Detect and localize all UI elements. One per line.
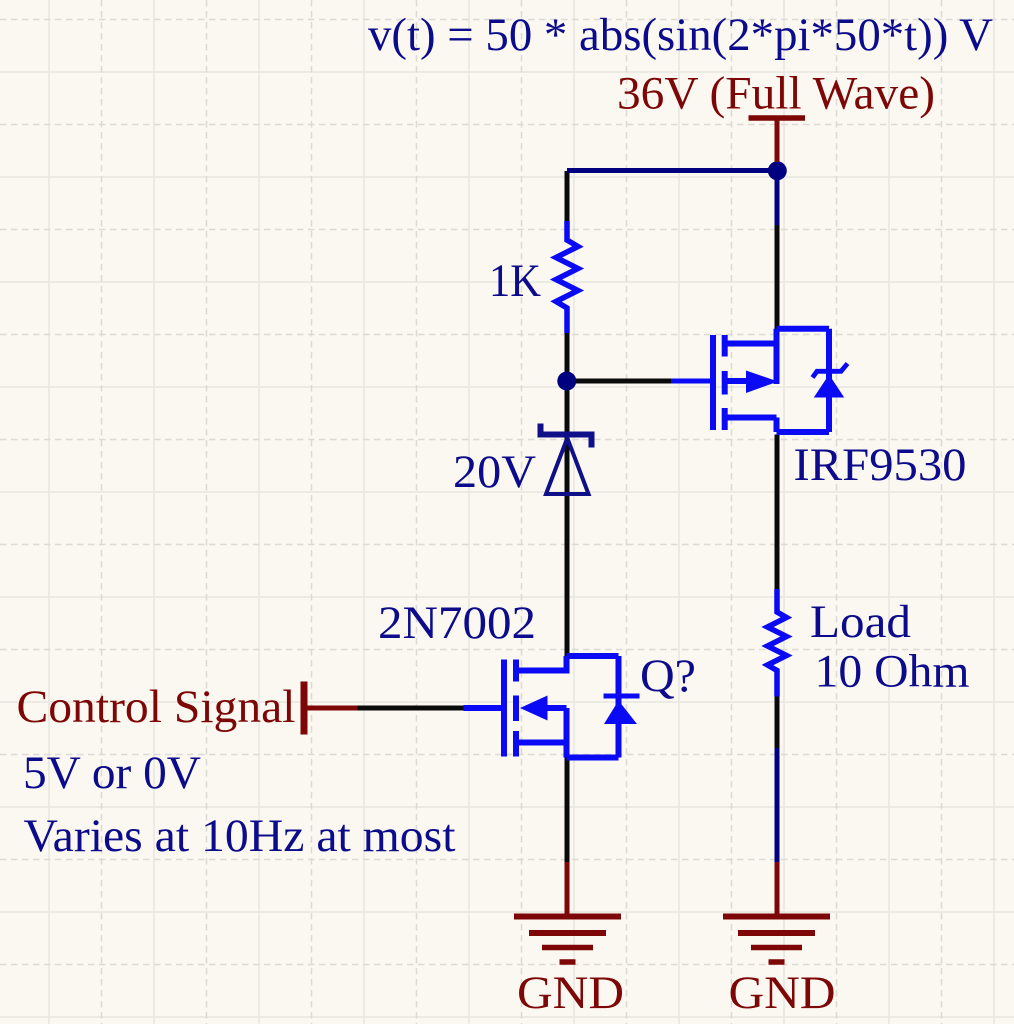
svg-text:20V: 20V xyxy=(453,446,536,498)
svg-text:Q?: Q? xyxy=(640,650,696,702)
svg-text:2N7002: 2N7002 xyxy=(378,597,536,649)
svg-text:GND: GND xyxy=(517,967,624,1019)
svg-text:GND: GND xyxy=(729,967,836,1019)
svg-text:Varies at 10Hz at most: Varies at 10Hz at most xyxy=(24,810,456,862)
svg-text:Control Signal: Control Signal xyxy=(17,681,296,733)
svg-text:36V (Full Wave): 36V (Full Wave) xyxy=(617,68,935,120)
svg-text:5V or 0V: 5V or 0V xyxy=(23,747,201,799)
svg-text:Load: Load xyxy=(810,596,911,648)
svg-text:1K: 1K xyxy=(489,255,541,307)
svg-text:10 Ohm: 10 Ohm xyxy=(815,646,970,698)
svg-text:v(t) = 50 * abs(sin(2*pi*50*t): v(t) = 50 * abs(sin(2*pi*50*t)) V xyxy=(368,9,993,61)
svg-text:IRF9530: IRF9530 xyxy=(794,439,967,491)
